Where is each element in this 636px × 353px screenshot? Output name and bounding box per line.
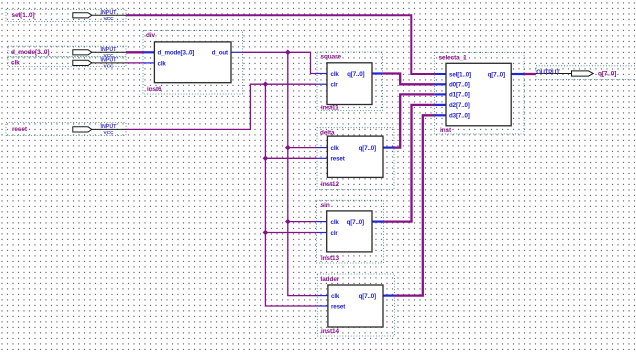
svg-text:inst12: inst12 — [321, 181, 340, 188]
block square inst11 — [317, 52, 383, 111]
svg-text:INPUT: INPUT — [101, 47, 118, 53]
svg-text:inst: inst — [440, 127, 452, 134]
svg-text:div: div — [146, 32, 156, 39]
svg-text:clk: clk — [331, 145, 340, 152]
wire reset branch to delta reset — [265, 157, 317, 159]
wire reset vertical distribution — [265, 84, 317, 306]
svg-text:d3[7..0]: d3[7..0] — [449, 113, 470, 120]
svg-text:d_out: d_out — [212, 50, 228, 57]
output pin q[7..0] — [536, 66, 636, 80]
svg-text:INPUT: INPUT — [101, 58, 118, 64]
svg-text:sin: sin — [321, 202, 330, 209]
wire d_out branch to delta clk — [288, 147, 317, 149]
wire ladder q bus to d3 — [395, 115, 435, 295]
junction reset at square clr row — [263, 81, 269, 87]
svg-text:d0[7..0]: d0[7..0] — [449, 82, 470, 89]
junction d_out at div output row — [285, 50, 291, 56]
junction reset at sin clr row — [263, 230, 269, 236]
wire square q bus to d0 — [383, 74, 435, 85]
wire d_out vertical distribution — [288, 52, 318, 295]
svg-text:VCC: VCC — [104, 64, 115, 70]
svg-text:inst6: inst6 — [147, 86, 162, 93]
svg-text:q[7..0]: q[7..0] — [359, 145, 376, 152]
wire reset net from pin up to square clr — [126, 84, 317, 129]
svg-text:clr: clr — [331, 82, 339, 89]
wire delta q bus to d1 — [394, 94, 434, 147]
svg-text:sel[1..0]: sel[1..0] — [12, 12, 35, 19]
svg-text:d1[7..0]: d1[7..0] — [449, 92, 470, 99]
svg-text:clk: clk — [331, 293, 340, 300]
junction reset at delta reset row — [263, 156, 269, 162]
svg-text:INPUT: INPUT — [101, 10, 118, 16]
block ladder inst14 — [317, 274, 394, 336]
svg-text:inst11: inst11 — [321, 104, 339, 111]
input pin sel[1..0] — [6, 10, 126, 22]
svg-text:delta: delta — [320, 129, 335, 136]
svg-text:reset: reset — [12, 126, 28, 133]
svg-text:clk: clk — [331, 219, 340, 226]
input pin clk — [8, 57, 126, 70]
svg-text:INPUT: INPUT — [101, 124, 118, 130]
svg-text:clk: clk — [331, 71, 340, 78]
wire sin q bus to d2 — [384, 105, 435, 222]
junction d_out at delta clk row — [285, 145, 291, 151]
svg-text:square: square — [321, 54, 342, 61]
input pin reset — [6, 123, 126, 137]
block sin inst13 — [317, 200, 384, 263]
wire d_out branch to sin clk — [288, 221, 317, 223]
svg-text:inst14: inst14 — [321, 328, 340, 335]
svg-text:d_mode[3..0]: d_mode[3..0] — [11, 49, 49, 56]
svg-text:OUTPUT: OUTPUT — [536, 70, 560, 76]
svg-text:clr: clr — [331, 230, 339, 237]
svg-text:VCC: VCC — [104, 16, 115, 22]
wire d_mode bus from pin to div — [126, 51, 143, 53]
input pin d_mode[3..0] — [8, 46, 126, 59]
svg-text:q[7..0]: q[7..0] — [488, 71, 505, 78]
block selecta_1 inst — [434, 53, 524, 135]
svg-text:q[7..0]: q[7..0] — [359, 293, 376, 300]
junction d_out at sin clk row — [285, 219, 291, 225]
wire clk net from pin to div — [126, 62, 143, 64]
wire sel bus from pin to selecta_1 — [126, 15, 434, 74]
svg-text:reset: reset — [331, 156, 345, 163]
svg-text:selecta_1: selecta_1 — [439, 55, 468, 62]
block div inst6 — [143, 30, 243, 94]
wire reset branch to sin clr — [265, 232, 316, 234]
block delta inst12 — [317, 128, 394, 190]
svg-text:VCC: VCC — [104, 130, 115, 136]
svg-text:reset: reset — [331, 303, 345, 310]
svg-text:sel[1..0]: sel[1..0] — [449, 71, 471, 78]
svg-text:ladder: ladder — [321, 276, 340, 283]
svg-text:q[7..0]: q[7..0] — [347, 71, 364, 78]
svg-text:clk: clk — [158, 60, 167, 67]
wire output q bus — [524, 73, 536, 75]
svg-text:q[7..0]: q[7..0] — [347, 219, 364, 226]
svg-text:inst13: inst13 — [321, 255, 340, 262]
svg-text:q[7..0]: q[7..0] — [598, 70, 616, 77]
svg-text:clk: clk — [11, 59, 20, 66]
svg-text:d_mode[3..0]: d_mode[3..0] — [158, 50, 195, 57]
wire d_out net from div to square clk — [243, 52, 318, 73]
svg-text:d2[7..0]: d2[7..0] — [449, 102, 470, 109]
